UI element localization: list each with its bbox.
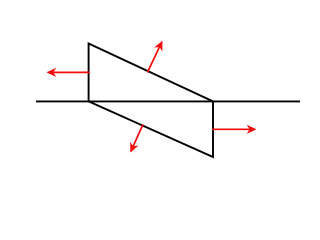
wire horizontal axis line	[36, 100, 300, 102]
arrow right from right face	[212, 128, 255, 130]
arrow down-left from bottom face	[131, 124, 143, 151]
slab parallelogram outline	[89, 44, 213, 158]
arrow left from left face	[48, 71, 90, 73]
arrow up-right from top face	[147, 42, 162, 73]
